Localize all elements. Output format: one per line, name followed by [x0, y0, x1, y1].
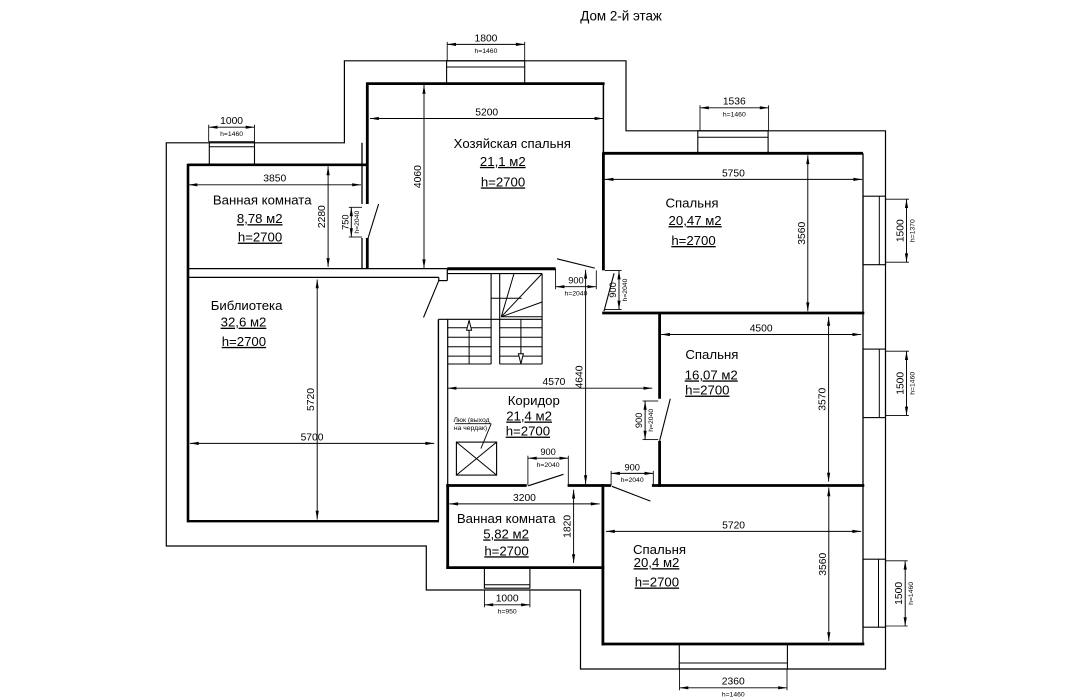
svg-text:1500: 1500 [894, 582, 905, 605]
wall left (bathroom + library) [187, 164, 190, 523]
svg-text:Спальня: Спальня [666, 195, 719, 210]
svg-text:5200: 5200 [475, 107, 498, 118]
door leaf master bedroom (900) [557, 259, 595, 268]
dimension 4500 bedroom-16.07 width [661, 323, 861, 336]
svg-text:5,82 м2: 5,82 м2 [483, 526, 529, 541]
svg-text:5750: 5750 [722, 168, 745, 179]
svg-text:h=1460: h=1460 [909, 372, 916, 395]
svg-text:h=2700: h=2700 [222, 334, 266, 349]
wall corridor-bedrooms bottom row [446, 484, 864, 487]
dimension 900 door bedroom-20.47 [605, 271, 629, 310]
svg-text:4570: 4570 [542, 377, 565, 388]
svg-text:900: 900 [608, 282, 618, 298]
svg-text:3570: 3570 [818, 388, 829, 411]
svg-text:900: 900 [568, 276, 584, 286]
wall bathroom-8.78 bottom / library top upper line [188, 268, 447, 270]
svg-text:5720: 5720 [722, 520, 745, 531]
svg-text:1500: 1500 [896, 219, 907, 242]
dimension 4060 master bedroom height [413, 85, 426, 268]
wall exterior right inner line [862, 153, 864, 644]
dimension 1000 window bathroom-8.78 [209, 116, 255, 142]
dimension 1500 window-a right [886, 199, 917, 262]
svg-text:h=2700: h=2700 [635, 575, 679, 590]
label bathroom-5.82 [457, 511, 556, 558]
svg-text:20,47 м2: 20,47 м2 [669, 213, 722, 228]
window-1500-a bedroom-20.47 right [863, 196, 886, 265]
svg-text:h=2700: h=2700 [671, 233, 715, 248]
door leaf bathroom-5.82 (900) [528, 474, 563, 486]
window-1536 bedroom-20.47 top [698, 131, 768, 154]
wall notch at library door [438, 269, 447, 281]
label library [211, 298, 283, 349]
svg-text:1820: 1820 [563, 515, 574, 538]
dimension 900 door master bedroom [556, 269, 597, 298]
svg-text:Дом 2-й этаж: Дом 2-й этаж [580, 9, 662, 24]
svg-text:16,07 м2: 16,07 м2 [685, 367, 738, 382]
svg-text:4500: 4500 [750, 323, 773, 334]
svg-text:h=950: h=950 [498, 608, 517, 615]
svg-text:Люк (выход: Люк (выход [453, 417, 489, 424]
svg-text:h=2040: h=2040 [648, 409, 655, 432]
svg-text:Ванная комната: Ванная комната [457, 511, 556, 526]
svg-text:21,1 м2: 21,1 м2 [480, 154, 526, 169]
label bedroom-16.07 [685, 347, 739, 398]
svg-text:h=1370: h=1370 [909, 219, 916, 242]
door leaf library (900) [424, 281, 439, 318]
wall bedroom-16.07 left [658, 313, 661, 487]
dimension 4570 corridor width [448, 377, 653, 390]
hatch to attic (люк) box with cross [456, 442, 496, 475]
wall bedroom-20.4 bottom [602, 643, 865, 646]
dimension 2280 bathroom-8.78 height [317, 166, 330, 267]
svg-text:Спальня: Спальня [685, 347, 738, 362]
wall bathroom-8.78 top [188, 164, 367, 167]
svg-text:h=2040: h=2040 [565, 290, 588, 297]
svg-text:1000: 1000 [496, 594, 519, 605]
svg-text:900: 900 [540, 447, 556, 457]
wall library right (stairwell side) [437, 319, 439, 521]
dimension 5700 library width [190, 432, 434, 445]
svg-text:Библиотека: Библиотека [211, 298, 283, 313]
label master bedroom [454, 136, 571, 190]
label bedroom-20.47 [666, 195, 722, 248]
svg-text:21,4 м2: 21,4 м2 [506, 409, 552, 424]
dimension 3560 bedroom-20.4 height [818, 488, 831, 642]
wall master bedroom left thick line [366, 84, 369, 269]
dimension 1820 bathroom-5.82 height [563, 490, 576, 563]
dimension 3560 bedroom-20.47 height [797, 155, 810, 311]
dimension 5200 master bedroom width [370, 107, 603, 120]
dimension 5720 library height [306, 280, 319, 520]
dimension 3570 bedroom-16.07 height [818, 317, 831, 482]
window-1500-b bedroom-16.07 right [863, 349, 886, 418]
door leaf bedroom-20.4 (900) [612, 486, 651, 501]
wall master bedroom right [602, 84, 604, 271]
svg-text:3560: 3560 [797, 222, 808, 245]
wall library top lower line [188, 276, 439, 278]
svg-text:на чердак): на чердак) [454, 425, 487, 432]
dimension 1800 window master [447, 33, 525, 61]
dimension 1500 window-c right [886, 561, 916, 626]
window-1000 bathroom-5.82 bottom [484, 568, 530, 589]
dimension 3850 bathroom-8.78 width [189, 174, 362, 187]
svg-text:h=2040: h=2040 [622, 278, 629, 301]
wall stairwell-corridor west line [447, 319, 449, 485]
dimension 1536 window bedroom-20.47 [700, 97, 769, 131]
label bedroom-20.4 [633, 542, 686, 589]
svg-text:h=1460: h=1460 [220, 131, 243, 138]
title [580, 9, 662, 24]
wall bathroom-5.82 bottom [446, 566, 604, 569]
svg-text:1800: 1800 [474, 33, 497, 44]
svg-text:h=2700: h=2700 [685, 383, 729, 398]
svg-text:750: 750 [340, 214, 350, 230]
svg-text:5700: 5700 [301, 432, 324, 443]
svg-text:1500: 1500 [896, 372, 907, 395]
svg-text:8,78 м2: 8,78 м2 [237, 211, 283, 226]
svg-text:1536: 1536 [723, 97, 746, 108]
dimension 5720 bedroom-20.4 width [606, 520, 861, 533]
svg-text:900: 900 [634, 413, 644, 429]
dimension 2360 window bedroom-20.4 [680, 669, 788, 698]
svg-text:h=1460: h=1460 [908, 582, 915, 605]
wall divider bedroom-20.47 / bedroom-16.07 [602, 312, 864, 315]
svg-text:2360: 2360 [722, 677, 745, 688]
window-1000 bathroom-8.78 top [209, 142, 254, 165]
door leaf bedroom-20.47 (900) [604, 273, 614, 311]
dimension 750 door bathroom-8.78 [340, 207, 362, 237]
door leaf bedroom-16.07 (900) [660, 399, 671, 441]
svg-text:900: 900 [624, 462, 640, 472]
wall bedroom-20.47 top [602, 152, 863, 155]
window-1500-c bedroom-20.4 right [863, 559, 886, 627]
svg-text:2280: 2280 [317, 205, 328, 228]
svg-text:h=2700: h=2700 [481, 174, 525, 189]
dimension 1000 window bathroom-5.82 [484, 590, 530, 615]
svg-text:4640: 4640 [575, 365, 586, 388]
svg-text:Коридор: Коридор [508, 393, 560, 408]
door leaf bathroom-8.78 (750) [368, 204, 379, 238]
svg-text:1000: 1000 [220, 116, 243, 127]
svg-text:Ванная комната: Ванная комната [213, 193, 312, 208]
svg-text:h=2700: h=2700 [238, 230, 282, 245]
svg-text:h=2700: h=2700 [484, 543, 528, 558]
hatch label and leader line [453, 417, 491, 449]
svg-text:3200: 3200 [513, 493, 536, 504]
wall bathroom-5.82 left [446, 484, 449, 569]
wall bathroom-5.82 right / bedroom-20.4 left [602, 484, 605, 645]
dimension 4640 corridor height [575, 270, 588, 484]
svg-text:32,6 м2: 32,6 м2 [221, 315, 267, 330]
stairs [438, 274, 542, 364]
svg-text:h=2040: h=2040 [621, 477, 644, 484]
svg-text:h=1460: h=1460 [475, 48, 498, 55]
svg-text:h=1460: h=1460 [722, 691, 745, 698]
window-1800 master bedroom top [447, 61, 525, 84]
svg-text:20,4 м2: 20,4 м2 [634, 555, 680, 570]
svg-text:h=1460: h=1460 [723, 111, 746, 118]
svg-text:4060: 4060 [413, 165, 424, 188]
label corridor [506, 393, 560, 439]
dimension 1500 window-b right [886, 351, 917, 415]
dimension 5750 bedroom-20.47 width [605, 168, 863, 181]
svg-text:3560: 3560 [818, 553, 829, 576]
svg-text:Хозяйская спальня: Хозяйская спальня [454, 136, 571, 151]
wall master bedroom left thin line [361, 143, 363, 269]
svg-text:5720: 5720 [306, 388, 317, 411]
dimension 900 door bedroom-20.4 [611, 462, 653, 485]
dimension 3200 bathroom-5.82 width [449, 493, 599, 506]
wire outer contour of exterior walls [166, 61, 885, 669]
svg-text:h=2040: h=2040 [537, 462, 560, 469]
svg-text:h=2040: h=2040 [354, 210, 361, 233]
svg-text:h=2700: h=2700 [506, 424, 550, 439]
dimension 900 door bathroom-5.82 [528, 447, 568, 485]
wall master bedroom top [366, 82, 605, 85]
svg-text:3850: 3850 [263, 174, 286, 185]
wall corridor top (master bedroom bottom) [447, 267, 555, 270]
window-2360 bedroom-20.4 bottom [679, 644, 787, 669]
label bathroom-8.78 [213, 193, 312, 245]
dimension 900 door bedroom-16.07 [634, 401, 658, 440]
wall library bottom [188, 520, 439, 522]
